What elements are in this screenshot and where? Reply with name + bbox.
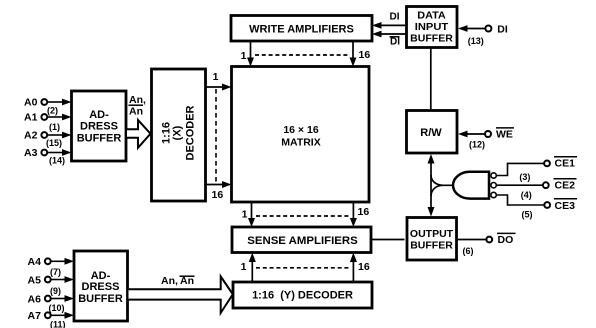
terminal A7 <box>28 310 51 322</box>
svg-text:1: 1 <box>242 209 248 221</box>
terminal CE3(bar) <box>544 199 577 212</box>
svg-text:A2: A2 <box>24 130 38 142</box>
svg-text:(12): (12) <box>469 140 485 150</box>
svg-text:DI: DI <box>390 37 400 48</box>
svg-text:(7): (7) <box>50 267 61 277</box>
svg-text:AD-: AD- <box>89 109 109 121</box>
wire A2 to address buffer <box>48 132 72 139</box>
svg-text:16 × 16: 16 × 16 <box>283 124 318 136</box>
svg-text:BUFFER: BUFFER <box>78 293 123 305</box>
svg-text:CE2: CE2 <box>555 180 576 192</box>
wire matrix to sense amp col 1 <box>248 202 255 227</box>
wire A7 to address buffer <box>51 312 74 319</box>
svg-text:WRITE AMPLIFIERS: WRITE AMPLIFIERS <box>249 24 354 36</box>
dashed bus write amps <box>255 54 349 56</box>
net label An,/An(bar) top <box>129 94 146 118</box>
svg-text:(2): (2) <box>47 106 58 116</box>
svg-text:1: 1 <box>241 261 247 273</box>
svg-text:(6): (6) <box>463 246 474 256</box>
wire A1 to address buffer <box>48 114 72 121</box>
svg-text:MATRIX: MATRIX <box>281 137 320 149</box>
terminal A4 <box>28 256 51 268</box>
wire A6 to address buffer <box>51 295 74 302</box>
svg-text:OUTPUT: OUTPUT <box>410 228 454 240</box>
wire X decoder row 16 to matrix <box>206 181 232 188</box>
AND gate U7 (chip enable, points left) <box>453 172 496 199</box>
svg-text:An,: An, <box>161 275 178 287</box>
wire DI data input buffer to write amps (top) <box>372 22 406 29</box>
wire X decoder row 1 to matrix <box>206 84 232 91</box>
wire write amp to matrix col 1 <box>247 41 254 67</box>
svg-text:1: 1 <box>213 71 219 83</box>
net label DI(bar) <box>390 37 401 48</box>
net label An, An(bar) bottom <box>161 275 195 287</box>
svg-text:16: 16 <box>212 189 224 201</box>
svg-text:A3: A3 <box>24 147 38 159</box>
svg-text:(4): (4) <box>521 190 532 200</box>
svg-text:CE3: CE3 <box>555 200 576 212</box>
X decoder U2 <box>152 69 206 201</box>
svg-text:16: 16 <box>358 206 370 218</box>
terminal A1 <box>24 112 47 124</box>
svg-text:A7: A7 <box>28 310 42 322</box>
block arrow address buffer to X decoder <box>126 120 151 148</box>
svg-text:1:16 (Y) DECODER: 1:16 (Y) DECODER <box>252 290 353 302</box>
svg-text:DECODER: DECODER <box>185 105 197 160</box>
terminal A5 <box>28 275 51 287</box>
terminal DO(bar) <box>486 233 515 246</box>
wire data input buffer to R/W <box>430 48 432 110</box>
block arrow address buffer to Y decoder <box>128 276 233 313</box>
svg-text:(5): (5) <box>522 210 533 220</box>
write amplifiers U3 <box>231 16 372 42</box>
dashed bus Y decoder to sense <box>256 267 350 269</box>
wire A5 to address buffer <box>51 276 74 283</box>
svg-text:A1: A1 <box>24 112 38 124</box>
wire WE terminal to R/W <box>458 131 485 138</box>
wire Y decoder to sense amp col 1 <box>249 253 256 282</box>
wire sense amps to output buffer <box>371 239 405 241</box>
svg-text:BUFFER: BUFFER <box>410 239 453 251</box>
svg-text:SENSE AMPLIFIERS: SENSE AMPLIFIERS <box>247 235 358 247</box>
wire output buffer to DO terminal <box>458 239 486 241</box>
terminal A0 <box>24 97 47 109</box>
svg-text:DI: DI <box>497 24 508 36</box>
Y decoder U10 <box>233 282 372 308</box>
output buffer U8 <box>407 218 457 261</box>
svg-text:CE1: CE1 <box>555 158 576 170</box>
terminal CE2(bar) <box>543 179 577 192</box>
svg-text:(14): (14) <box>49 156 65 166</box>
svg-text:An,: An, <box>129 94 146 106</box>
address buffer U1 (A0-A3) <box>72 91 127 161</box>
svg-text:A5: A5 <box>28 275 42 287</box>
svg-text:(15): (15) <box>46 138 62 148</box>
data input buffer U5 <box>407 7 458 48</box>
wire DI(bar) data input buffer to write amps (bottom) <box>372 31 406 38</box>
wire matrix to sense amp col 16 <box>350 202 357 227</box>
wire CE3 to gate <box>496 195 544 205</box>
svg-text:16: 16 <box>359 49 371 61</box>
svg-text:(11): (11) <box>50 320 66 328</box>
svg-text:DO: DO <box>498 234 514 246</box>
svg-text:(9): (9) <box>50 286 61 296</box>
svg-text:A4: A4 <box>28 256 42 268</box>
svg-text:DATA: DATA <box>417 9 446 21</box>
svg-text:BUFFER: BUFFER <box>77 133 122 145</box>
svg-text:1: 1 <box>241 50 247 62</box>
svg-text:BUFFER: BUFFER <box>410 33 453 45</box>
wire DI input terminal to data input buffer <box>458 25 485 32</box>
svg-text:A0: A0 <box>24 97 38 109</box>
svg-text:R/W: R/W <box>420 127 442 139</box>
svg-text:(1): (1) <box>49 122 60 132</box>
svg-text:(13): (13) <box>468 36 484 46</box>
sense amplifiers U9 <box>232 227 371 253</box>
svg-text:An: An <box>129 106 143 118</box>
terminal A6 <box>28 294 51 306</box>
terminal DI input <box>485 24 507 36</box>
terminal CE1(bar) <box>544 157 577 170</box>
wire write amp to matrix col 16 <box>350 41 357 67</box>
dashed bus matrix to sense <box>256 215 350 217</box>
wire R/W to output buffer (vertical, arrows both ends) <box>428 154 435 217</box>
wire A3 to address buffer <box>48 149 72 156</box>
wire Y decoder to sense amp col 16 <box>350 253 357 282</box>
svg-text:A6: A6 <box>28 294 42 306</box>
address buffer U11 (A4-A7) <box>74 251 128 321</box>
R/W block U6 <box>407 111 458 154</box>
svg-text:DRESS: DRESS <box>80 121 118 133</box>
terminal A3 <box>24 147 47 159</box>
svg-text:DRESS: DRESS <box>82 281 120 293</box>
svg-text:(10): (10) <box>49 303 65 313</box>
svg-text:DI: DI <box>390 12 400 23</box>
svg-text:WE: WE <box>496 129 513 141</box>
svg-text:(X): (X) <box>172 125 184 140</box>
terminal WE(bar) <box>485 128 514 141</box>
terminal A2 <box>24 130 47 142</box>
wire gate output to R/W-output buffer line <box>431 175 453 196</box>
matrix U4 16x16 <box>232 67 370 203</box>
svg-text:INPUT: INPUT <box>415 21 449 33</box>
dashed bus X decoder rows <box>215 89 217 185</box>
wire A0 to address buffer <box>48 99 72 106</box>
wire A4 to address buffer <box>51 258 74 265</box>
wire CE2 to gate <box>496 184 542 186</box>
svg-text:16: 16 <box>358 261 370 273</box>
wire CE1 to gate <box>496 163 544 175</box>
svg-text:(3): (3) <box>519 172 530 182</box>
